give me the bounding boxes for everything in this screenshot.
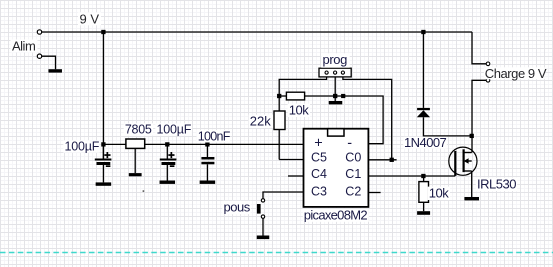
svg-text:pous: pous — [224, 199, 251, 214]
svg-text:1N4007: 1N4007 — [404, 135, 447, 150]
node junction pin2/10k wire — [333, 94, 337, 98]
ground cap1 — [96, 182, 112, 185]
label 100uF output — [155, 123, 191, 137]
wire 9V top rail — [42, 31, 472, 33]
resistor 10k gate pulldown — [419, 176, 429, 211]
node junction rail/cap2 — [165, 142, 169, 146]
resistor 22k — [274, 111, 285, 160]
svg-text:100nF: 100nF — [198, 129, 231, 143]
label Charge 9 V — [484, 66, 547, 81]
switch pous — [257, 192, 304, 236]
node junction rail/cap3 — [205, 142, 209, 146]
svg-text:C0: C0 — [345, 151, 361, 165]
svg-text:Alim: Alim — [12, 38, 35, 53]
label IRL530 — [476, 176, 517, 191]
pin label C4 — [311, 167, 327, 181]
wire C1 to gate — [368, 175, 455, 177]
resistor 10k serial — [279, 92, 383, 144]
svg-text:Charge 9 V: Charge 9 V — [485, 66, 547, 81]
svg-text:100µF: 100µF — [157, 123, 192, 137]
svg-text:10k: 10k — [429, 185, 449, 200]
label 100uF input — [63, 140, 99, 154]
pin label - — [347, 136, 352, 152]
ground Alim — [48, 69, 62, 72]
wire charge- to drain — [472, 80, 486, 152]
ground cap3 — [200, 181, 216, 184]
pin label C1 — [345, 167, 361, 181]
ground cap2 — [160, 181, 176, 184]
node junction C0/prog — [390, 158, 394, 162]
ground 10k — [417, 211, 430, 215]
diode 1N4007 — [417, 32, 472, 136]
transistor IRL530 — [449, 147, 477, 197]
label 1N4007 — [403, 135, 447, 150]
wire 5V rail — [103, 143, 303, 145]
label 7805 — [124, 123, 153, 137]
ground IRL530 — [464, 197, 479, 200]
ground pous — [257, 236, 270, 240]
svg-text:C3: C3 — [311, 184, 327, 198]
svg-text:picaxe08M2: picaxe08M2 — [304, 207, 368, 222]
label 10k gate — [428, 185, 450, 200]
label 10k serial — [288, 102, 310, 117]
wire prog pin2 to ground — [334, 77, 336, 101]
pin label C5 — [311, 151, 327, 165]
terminal Charge - — [486, 79, 490, 83]
svg-text:C5: C5 — [311, 151, 327, 165]
svg-text:C4: C4 — [311, 167, 327, 181]
label Alim — [11, 38, 38, 53]
pin label C0 — [345, 151, 361, 165]
pin label C3 — [311, 184, 327, 198]
page boundary dashed line — [0, 252, 553, 254]
wire prog pin1 to 22k — [279, 77, 326, 111]
node junction pin1/10k — [277, 94, 281, 98]
node junction 9V/left drop — [101, 30, 105, 34]
label 22k — [249, 113, 273, 128]
label pous — [222, 199, 250, 214]
svg-text:-: - — [347, 136, 352, 152]
capacitor 100uF output — [160, 144, 177, 180]
terminal Alim - — [37, 54, 55, 69]
wire pin C2 stub — [368, 192, 380, 194]
regulator 7805 — [126, 139, 145, 173]
ground prog — [329, 101, 343, 104]
label 100nF — [197, 129, 231, 143]
label 9 V — [78, 11, 101, 26]
svg-text:7805: 7805 — [125, 123, 152, 137]
terminal Alim + — [37, 30, 41, 34]
ground 7805 — [129, 173, 142, 176]
pin label C2 — [345, 184, 361, 198]
svg-text:100µF: 100µF — [65, 140, 100, 154]
wire 9V drop to 5V rail — [102, 32, 104, 159]
IC picaxe08M2 — [304, 129, 369, 207]
capacitor 100uF input — [95, 144, 112, 182]
svg-text:+: + — [314, 136, 322, 152]
node junction rail/cap1 — [101, 142, 105, 146]
wire pin C0 — [368, 159, 396, 161]
wire rail to charge+ — [472, 32, 486, 64]
wire pin C4 stub — [288, 175, 304, 177]
node junction 9V/diode — [421, 30, 425, 34]
capacitor 100nF — [201, 144, 214, 180]
pin label + — [314, 136, 322, 152]
label picaxe08M2 — [303, 207, 369, 222]
wire 22k to C5 — [279, 159, 303, 161]
svg-text:prog: prog — [323, 52, 348, 67]
node stray dot — [143, 190, 145, 192]
connector prog — [319, 68, 351, 77]
node junction diode/drain — [470, 134, 474, 138]
label prog — [321, 52, 349, 68]
svg-text:10k: 10k — [289, 102, 309, 117]
node junction gate/10k — [421, 174, 425, 178]
node wire end square — [341, 94, 345, 98]
svg-text:22k: 22k — [250, 113, 271, 128]
svg-text:C1: C1 — [345, 167, 361, 181]
svg-text:9 V: 9 V — [80, 11, 100, 26]
svg-text:C2: C2 — [345, 184, 361, 198]
wire prog pin3 to C0 — [343, 77, 392, 160]
svg-text:IRL530: IRL530 — [477, 176, 516, 191]
terminal Charge + — [486, 62, 490, 66]
